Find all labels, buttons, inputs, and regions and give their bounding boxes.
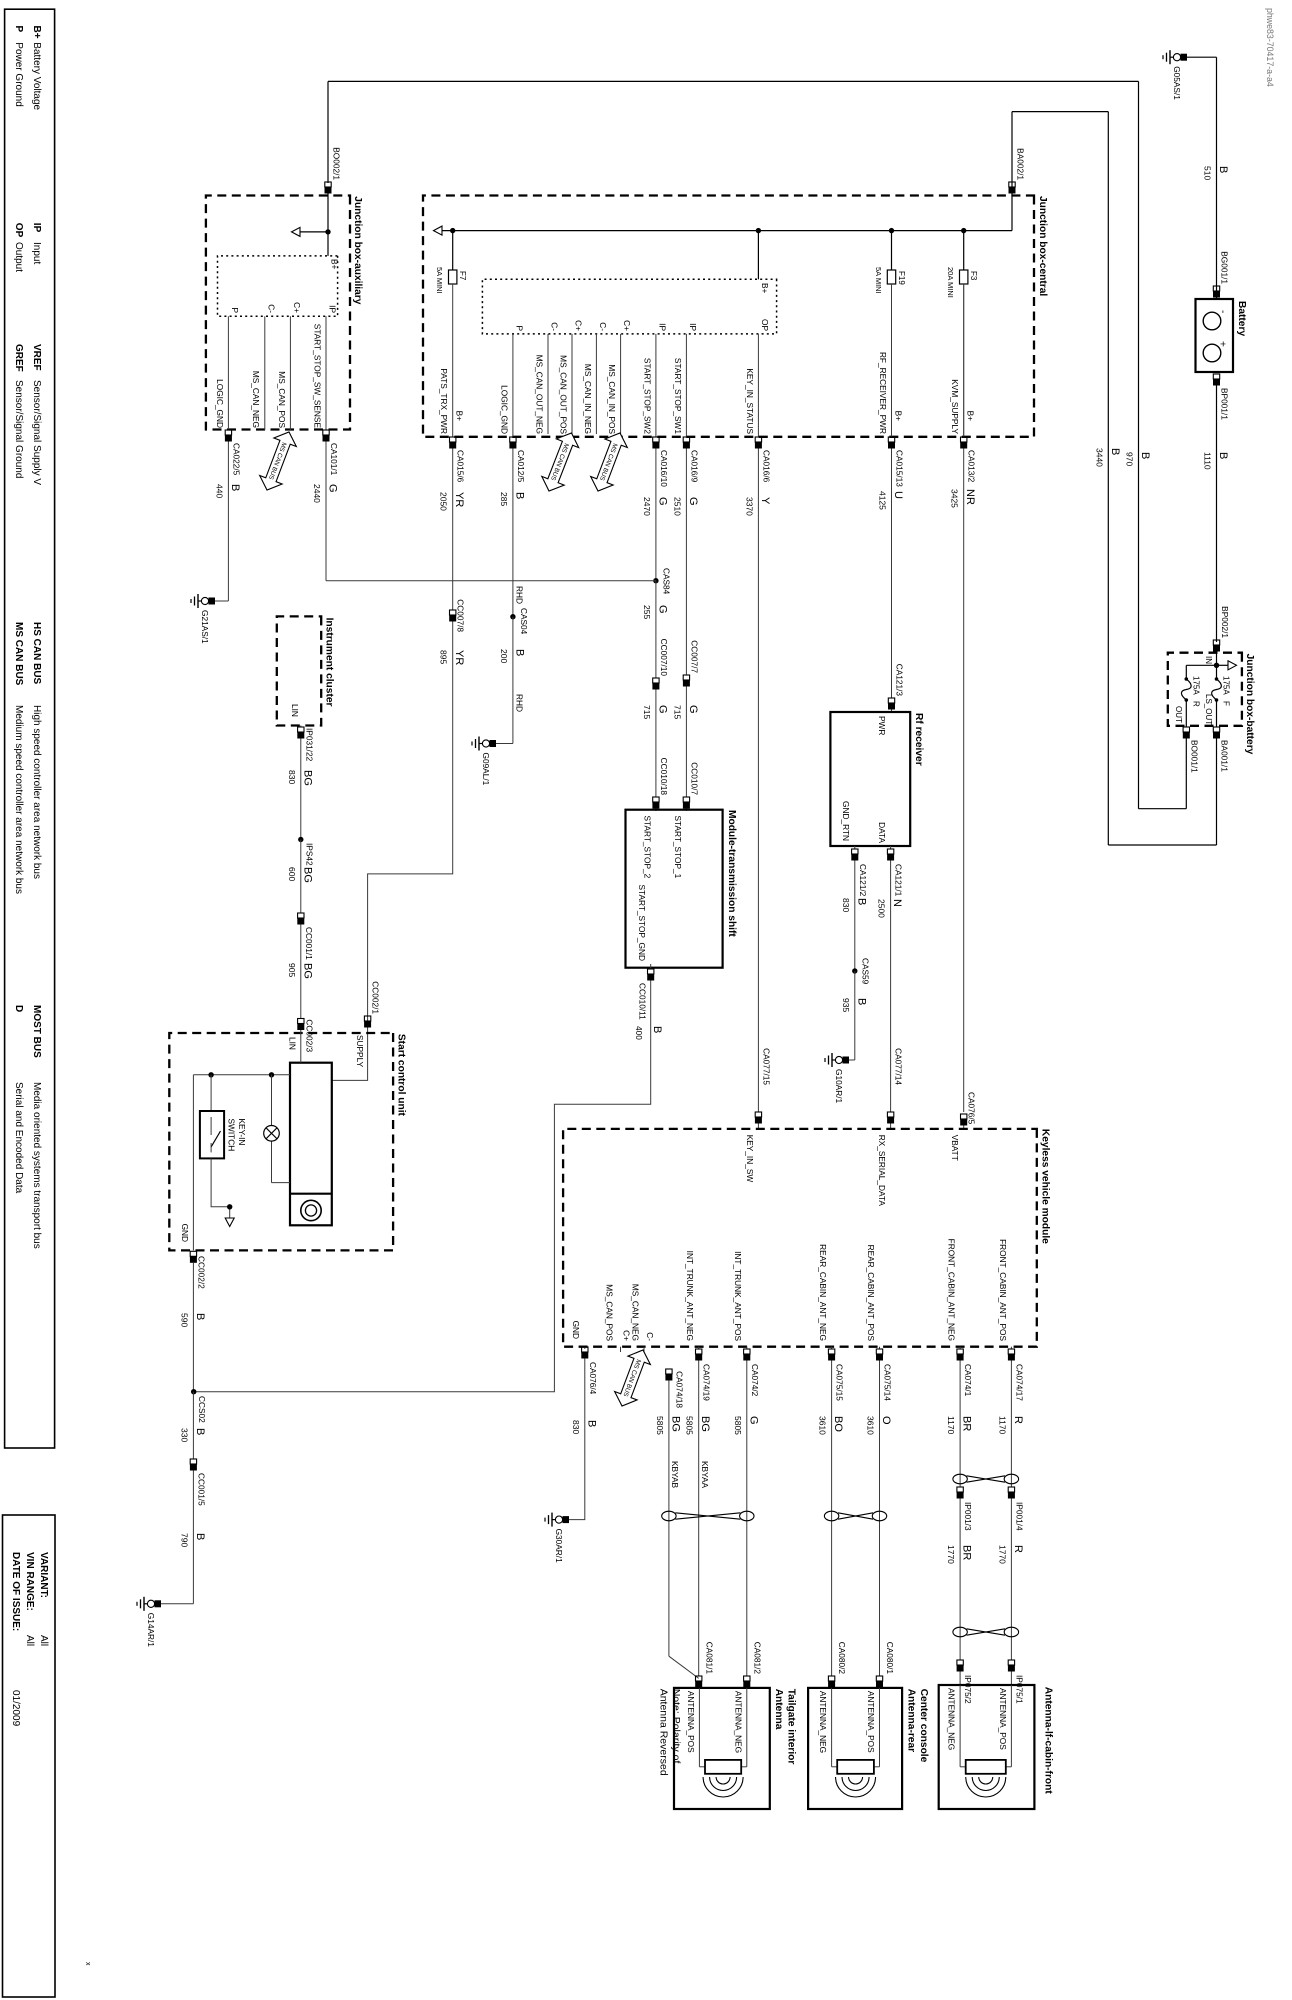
svg-text:CAS84: CAS84 bbox=[662, 568, 672, 595]
svg-text:CA121/1: CA121/1 bbox=[894, 864, 904, 897]
svg-text:G10AR/1: G10AR/1 bbox=[834, 1069, 844, 1104]
connector CC002/2 bbox=[190, 1251, 196, 1256]
svg-text:+: + bbox=[1217, 341, 1228, 347]
svg-text:ANTENNA_NEG: ANTENNA_NEG bbox=[947, 1688, 957, 1750]
svg-text:REAR_CABIN_ANT_POS: REAR_CABIN_ANT_POS bbox=[866, 1245, 876, 1342]
B+ pin bbox=[756, 228, 761, 233]
svg-text:BR: BR bbox=[961, 1545, 973, 1560]
GND wire bbox=[192, 1075, 194, 1251]
svg-text:20A MINI: 20A MINI bbox=[946, 267, 955, 298]
wire B 400 to CCS02 bbox=[194, 981, 651, 1392]
svg-text:Junction box-auxiliary: Junction box-auxiliary bbox=[352, 196, 363, 304]
MS CAN stubs and arrow keyless bbox=[643, 1347, 645, 1352]
svg-text:ANTENNA_NEG: ANTENNA_NEG bbox=[818, 1691, 828, 1753]
wire BR 1770 bbox=[959, 1499, 961, 1661]
ground G30AR/1 bbox=[563, 1516, 570, 1523]
svg-text:CC007/8: CC007/8 bbox=[456, 599, 466, 632]
svg-text:830: 830 bbox=[287, 770, 297, 784]
INT_TRUNK_ANT_NEG wire BG 5805 KBYAA bbox=[698, 1347, 700, 1349]
MS CAN BUS arrow aux bbox=[256, 428, 300, 495]
wire BA001/1 to B-3440 bus bbox=[1216, 739, 1218, 846]
svg-text:F7: F7 bbox=[458, 271, 467, 281]
svg-text:510: 510 bbox=[1203, 166, 1213, 180]
svg-text:DATA: DATA bbox=[877, 822, 887, 843]
wire B 590 bbox=[192, 1263, 194, 1392]
wire B 440 bbox=[227, 442, 229, 602]
svg-text:B+: B+ bbox=[966, 411, 976, 422]
svg-text:CC007/10: CC007/10 bbox=[659, 639, 669, 677]
svg-text:IP001/4: IP001/4 bbox=[1014, 1502, 1024, 1531]
svg-text:YR: YR bbox=[453, 492, 465, 507]
connector IP001/3 bbox=[957, 1487, 963, 1492]
svg-text:G: G bbox=[656, 605, 668, 614]
svg-text:CA075/14: CA075/14 bbox=[883, 1364, 893, 1401]
module-transmission shift bbox=[626, 810, 723, 968]
START_STOP_SW_SENSE IP pin bbox=[325, 316, 327, 430]
svg-text:C-: C- bbox=[598, 322, 608, 331]
connector CA101/1 bbox=[323, 430, 329, 435]
svg-text:5A MINI: 5A MINI bbox=[874, 267, 883, 294]
connector CC007/7 bbox=[683, 675, 689, 680]
ground G14AR/1 bbox=[161, 1603, 193, 1605]
svg-text:1770: 1770 bbox=[946, 1545, 956, 1564]
connector CC007/10 bbox=[653, 678, 659, 683]
svg-text:BO002/1: BO002/1 bbox=[332, 147, 342, 180]
svg-text:Battery: Battery bbox=[1236, 301, 1247, 336]
svg-text:GND: GND bbox=[571, 1321, 581, 1339]
target circles bbox=[301, 1200, 321, 1220]
svg-text:CA016/9: CA016/9 bbox=[689, 450, 699, 483]
svg-text:MS_CAN_NEG: MS_CAN_NEG bbox=[251, 371, 261, 428]
wire BG 830 bbox=[300, 739, 302, 840]
variant box bbox=[3, 1515, 56, 1997]
svg-text:CA076/5: CA076/5 bbox=[967, 1092, 977, 1125]
svg-text:Start control unit: Start control unit bbox=[396, 1034, 407, 1117]
twisted pair front 2 bbox=[1004, 1627, 1018, 1637]
svg-text:CA121/3: CA121/3 bbox=[895, 664, 905, 697]
svg-text:B: B bbox=[855, 998, 867, 1005]
junction box-central bbox=[423, 196, 1034, 437]
svg-text:CA015/13: CA015/13 bbox=[895, 450, 905, 487]
wire GND_RTN out bbox=[854, 846, 856, 849]
svg-text:REAR_CABIN_ANT_NEG: REAR_CABIN_ANT_NEG bbox=[818, 1244, 828, 1341]
wire into LIN pin bbox=[300, 1030, 302, 1063]
svg-text:400: 400 bbox=[634, 1026, 644, 1040]
connector CA121/1 bbox=[887, 849, 893, 854]
svg-text:905: 905 bbox=[287, 963, 297, 977]
svg-text:2440: 2440 bbox=[312, 484, 322, 503]
wire YR 895 to start control unit supply bbox=[332, 622, 453, 1081]
svg-text:SUPPLY: SUPPLY bbox=[355, 1035, 365, 1068]
svg-text:Sensor/Signal Supply V: Sensor/Signal Supply V bbox=[31, 380, 42, 485]
wire N 2500 bbox=[890, 861, 892, 1113]
svg-text:Media oriented systems transpo: Media oriented systems transport bus bbox=[31, 1082, 42, 1249]
FRONT_CABIN_ANT_NEG wire BR 1170 bbox=[959, 1347, 961, 1349]
fusible link 175A R OUT branch bbox=[1186, 664, 1216, 666]
svg-text:CA075/15: CA075/15 bbox=[835, 1364, 845, 1401]
svg-text:970: 970 bbox=[1125, 452, 1135, 466]
svg-text:G30AR/1: G30AR/1 bbox=[554, 1529, 564, 1564]
svg-text:CCS02: CCS02 bbox=[197, 1396, 207, 1423]
svg-text:285: 285 bbox=[499, 492, 509, 506]
svg-text:Power Ground: Power Ground bbox=[13, 42, 24, 106]
MS_CAN_OUT pins bbox=[620, 334, 622, 434]
svg-text:175A: 175A bbox=[1192, 676, 1201, 695]
svg-text:PWR: PWR bbox=[877, 716, 887, 735]
svg-text:VIN RANGE:: VIN RANGE: bbox=[24, 1552, 35, 1611]
wire R 1770 bbox=[1010, 1499, 1012, 1661]
svg-text:C-: C- bbox=[645, 1332, 655, 1341]
svg-text:YR: YR bbox=[453, 650, 465, 665]
start control unit bbox=[169, 1033, 393, 1250]
connector CA121/2 bbox=[852, 849, 858, 854]
svg-text:C+: C+ bbox=[574, 320, 584, 331]
svg-text:B: B bbox=[194, 1313, 206, 1320]
svg-text:P: P bbox=[515, 325, 525, 331]
svg-text:VBATT: VBATT bbox=[950, 1135, 960, 1161]
svg-text:RF_RECEIVER_PWR: RF_RECEIVER_PWR bbox=[878, 352, 888, 434]
junction node aux bbox=[325, 229, 330, 234]
connector IP075/2 bbox=[957, 1660, 963, 1665]
svg-text:BG: BG bbox=[699, 1416, 711, 1432]
connector IP001/4 bbox=[1008, 1487, 1014, 1492]
svg-text:CA081/1: CA081/1 bbox=[704, 1642, 714, 1675]
splice CAS84 bbox=[653, 578, 658, 583]
fuse F19 5A MINI / RF_RECEIVER_PWR bbox=[889, 228, 894, 233]
svg-text:B: B bbox=[1109, 448, 1121, 455]
svg-text:U: U bbox=[892, 491, 904, 499]
svg-text:START_STOP_SW1: START_STOP_SW1 bbox=[673, 358, 683, 434]
svg-text:Tailgate interior: Tailgate interior bbox=[786, 1689, 797, 1765]
antenna-lf-cabin-front bbox=[939, 1685, 1035, 1809]
svg-text:01/2009: 01/2009 bbox=[10, 1690, 21, 1727]
arrow bus continuation down aux bbox=[300, 231, 328, 233]
svg-text:1110: 1110 bbox=[1203, 452, 1213, 470]
svg-text:LIN: LIN bbox=[290, 704, 300, 717]
svg-text:CC007/7: CC007/7 bbox=[689, 640, 699, 673]
svg-text:MOST BUS: MOST BUS bbox=[31, 1005, 42, 1058]
svg-text:F19: F19 bbox=[897, 271, 906, 285]
svg-text:RHD: RHD bbox=[515, 586, 525, 604]
START_STOP_SW2 IP pin bbox=[655, 334, 657, 437]
svg-text:G05AS/1: G05AS/1 bbox=[1172, 66, 1182, 100]
svg-text:R: R bbox=[1012, 1545, 1024, 1553]
connector CC010/11 bbox=[648, 969, 654, 974]
svg-text:5A MINI: 5A MINI bbox=[435, 267, 444, 294]
CAS84 branch to start stop sense bbox=[326, 580, 656, 582]
svg-text:Antenna-rear: Antenna-rear bbox=[906, 1689, 917, 1752]
svg-text:BA001/1: BA001/1 bbox=[1220, 740, 1230, 772]
svg-text:DATE OF ISSUE:: DATE OF ISSUE: bbox=[10, 1552, 21, 1631]
inner unit box bbox=[290, 1063, 332, 1226]
svg-text:BP001/1: BP001/1 bbox=[1220, 388, 1230, 420]
wire B 3440 bbox=[1107, 112, 1109, 845]
svg-text:ANTENNA_POS: ANTENNA_POS bbox=[998, 1688, 1008, 1750]
svg-text:P: P bbox=[13, 26, 24, 33]
svg-text:phwe83-70417-a-a4: phwe83-70417-a-a4 bbox=[1265, 8, 1275, 87]
svg-text:Serial and Encoded Data: Serial and Encoded Data bbox=[13, 1082, 24, 1194]
connector BA002/1 bbox=[1009, 182, 1015, 187]
svg-text:CA016/10: CA016/10 bbox=[659, 450, 669, 487]
fuse F3 20A MINI / KVM_SUPPLY bbox=[961, 228, 966, 233]
svg-text:FRONT_CABIN_ANT_POS: FRONT_CABIN_ANT_POS bbox=[998, 1239, 1008, 1341]
svg-text:B: B bbox=[855, 898, 867, 905]
svg-text:3610: 3610 bbox=[866, 1416, 876, 1435]
REAR_CABIN_ANT_POS wire O 3610 bbox=[879, 1347, 881, 1349]
svg-text:CC010/18: CC010/18 bbox=[659, 758, 669, 796]
svg-text:3610: 3610 bbox=[818, 1416, 828, 1435]
svg-text:CA081/2: CA081/2 bbox=[752, 1642, 762, 1675]
svg-text:CC002/3: CC002/3 bbox=[304, 1019, 314, 1052]
wire YR 2050 bbox=[452, 449, 454, 611]
svg-text:OP: OP bbox=[760, 319, 770, 331]
svg-text:B: B bbox=[585, 1420, 597, 1427]
inner dotted box aux bbox=[218, 256, 338, 316]
connector CC002/3 bbox=[298, 1019, 304, 1024]
wire B 830 bbox=[854, 861, 856, 972]
svg-text:MS_CAN_POS: MS_CAN_POS bbox=[277, 371, 287, 428]
svg-text:B: B bbox=[513, 492, 525, 499]
tap wire BG 5805 KBYAB bbox=[666, 1369, 672, 1374]
svg-text:3370: 3370 bbox=[744, 497, 754, 516]
wire B 330 bbox=[192, 1392, 194, 1459]
svg-text:IPS42: IPS42 bbox=[305, 843, 315, 866]
svg-text:CC010/7: CC010/7 bbox=[689, 762, 699, 795]
connector CA015/6 bbox=[450, 437, 456, 442]
svg-text:All: All bbox=[24, 1635, 35, 1646]
wire into fuse F bbox=[1216, 652, 1218, 679]
svg-text:MS_CAN_IN_POS: MS_CAN_IN_POS bbox=[607, 364, 617, 434]
svg-text:2510: 2510 bbox=[672, 497, 682, 516]
svg-text:175A: 175A bbox=[1222, 676, 1231, 695]
svg-text:Y: Y bbox=[759, 497, 771, 505]
svg-text:NR: NR bbox=[964, 489, 976, 505]
svg-text:CA074/19: CA074/19 bbox=[702, 1364, 712, 1401]
svg-text:CA076/4: CA076/4 bbox=[588, 1362, 598, 1395]
svg-text:C-: C- bbox=[266, 304, 276, 313]
svg-text:PATS_TRX_PWR: PATS_TRX_PWR bbox=[439, 368, 449, 434]
svg-text:START_STOP_SW_SENSE: START_STOP_SW_SENSE bbox=[312, 324, 322, 429]
inner dotted box bbox=[482, 279, 776, 334]
MS CAN aux pins bbox=[289, 316, 291, 430]
svg-text:N: N bbox=[891, 899, 903, 907]
svg-text:CA074/18: CA074/18 bbox=[675, 1371, 685, 1408]
svg-text:MS CAN BUS: MS CAN BUS bbox=[13, 622, 24, 686]
junction box-auxiliary bbox=[206, 196, 350, 430]
wire B 790 bbox=[192, 1471, 194, 1604]
connector CA080/1 bbox=[876, 1676, 882, 1681]
svg-text:895: 895 bbox=[439, 650, 449, 664]
svg-text:Note: Polarity of: Note: Polarity of bbox=[670, 1689, 682, 1764]
connector BA001/1 bbox=[1213, 727, 1219, 732]
wire G 2470 bbox=[655, 449, 657, 581]
svg-text:G21AS/1: G21AS/1 bbox=[200, 610, 210, 644]
svg-text:IP001/3: IP001/3 bbox=[963, 1502, 973, 1531]
connector CA022/5 bbox=[225, 430, 231, 435]
svg-text:VARIANT:: VARIANT: bbox=[38, 1552, 49, 1598]
svg-text:Battery Voltage: Battery Voltage bbox=[31, 42, 42, 110]
svg-text:MS_CAN_OUT_NEG: MS_CAN_OUT_NEG bbox=[534, 355, 544, 434]
wire B 935 bbox=[854, 971, 856, 1060]
B+ bus bbox=[442, 230, 1012, 232]
svg-text:KEY_IN_SW: KEY_IN_SW bbox=[745, 1135, 755, 1183]
svg-text:830: 830 bbox=[571, 1420, 581, 1434]
svg-text:BO001/1: BO001/1 bbox=[1189, 740, 1199, 773]
svg-text:D: D bbox=[13, 1005, 24, 1012]
svg-text:830: 830 bbox=[841, 898, 851, 912]
svg-text:590: 590 bbox=[179, 1313, 189, 1327]
svg-text:B+: B+ bbox=[31, 26, 42, 39]
svg-text:B: B bbox=[1217, 452, 1229, 459]
wire B 200 RHD bbox=[512, 617, 514, 744]
tailgate interior antenna bbox=[674, 1688, 770, 1809]
svg-text:CA074/17: CA074/17 bbox=[1014, 1364, 1024, 1401]
connector CA081/1 bbox=[696, 1676, 702, 1681]
svg-text:O: O bbox=[880, 1416, 892, 1425]
svg-text:Input: Input bbox=[31, 242, 42, 264]
svg-text:C+: C+ bbox=[622, 320, 632, 331]
connector CA015/13 bbox=[888, 437, 894, 442]
svg-text:CC001/5: CC001/5 bbox=[196, 1473, 206, 1506]
svg-text:1170: 1170 bbox=[997, 1416, 1007, 1435]
svg-text:Sensor/Signal Ground: Sensor/Signal Ground bbox=[13, 380, 24, 478]
LOGIC_GND P pin aux bbox=[227, 316, 229, 430]
svg-text:CA016/6: CA016/6 bbox=[761, 450, 771, 483]
svg-text:IP075/1: IP075/1 bbox=[1014, 1675, 1024, 1704]
KEY_IN_STATUS OP pin bbox=[757, 334, 759, 437]
wire Y 3370 bbox=[757, 449, 759, 1113]
svg-text:5805: 5805 bbox=[685, 1416, 695, 1435]
svg-text:B: B bbox=[1217, 166, 1229, 173]
arrow bus continuation up bbox=[1217, 664, 1229, 666]
svg-text:Medium speed controller area n: Medium speed controller area network bus bbox=[13, 705, 24, 894]
svg-text:VREF: VREF bbox=[31, 344, 42, 371]
LOGIC_GND P pin bbox=[512, 334, 514, 437]
MS CAN BUS arrow out bbox=[538, 429, 583, 496]
svg-text:B+: B+ bbox=[760, 283, 770, 294]
svg-text:R: R bbox=[1012, 1416, 1024, 1424]
instrument cluster bbox=[277, 616, 321, 725]
svg-text:G09AL/1: G09AL/1 bbox=[481, 753, 491, 786]
svg-text:3425: 3425 bbox=[950, 489, 960, 508]
REAR_CABIN_ANT_NEG wire BO 3610 bbox=[831, 1347, 833, 1349]
svg-text:BA002/1: BA002/1 bbox=[1016, 148, 1026, 180]
svg-text:OUT: OUT bbox=[1174, 706, 1183, 723]
svg-text:x: x bbox=[84, 1962, 91, 1966]
connector CA016/6 bbox=[755, 437, 761, 442]
connector CC010/7 bbox=[683, 797, 689, 802]
svg-text:LIN: LIN bbox=[288, 1037, 298, 1050]
svg-text:Module-transmission shift: Module-transmission shift bbox=[726, 810, 737, 937]
svg-text:2050: 2050 bbox=[439, 492, 449, 511]
svg-text:IP: IP bbox=[328, 305, 338, 313]
svg-text:LS_OUT: LS_OUT bbox=[1204, 694, 1213, 725]
B+ feed into aux bbox=[327, 194, 329, 256]
splice CCS02 bbox=[191, 1389, 196, 1394]
svg-text:Instrument cluster: Instrument cluster bbox=[324, 618, 335, 707]
svg-text:Antenna: Antenna bbox=[773, 1689, 784, 1730]
svg-text:KEY_IN_STATUS: KEY_IN_STATUS bbox=[745, 368, 755, 434]
svg-text:CA074/1: CA074/1 bbox=[963, 1364, 973, 1397]
svg-text:HS CAN BUS: HS CAN BUS bbox=[31, 622, 42, 685]
junction node bbox=[1214, 663, 1219, 668]
svg-text:935: 935 bbox=[841, 998, 851, 1012]
svg-text:CA080/2: CA080/2 bbox=[837, 1642, 847, 1675]
connector CA012/5 bbox=[510, 437, 516, 442]
svg-text:G: G bbox=[327, 484, 339, 493]
svg-text:START_STOP_SW2: START_STOP_SW2 bbox=[642, 358, 652, 434]
INT_TRUNK_ANT_POS wire G 5805 bbox=[746, 1347, 748, 1349]
splice CAS59 bbox=[852, 968, 857, 973]
svg-text:715: 715 bbox=[642, 705, 652, 719]
svg-text:4125: 4125 bbox=[878, 491, 888, 510]
wire B 285 RHD bbox=[512, 449, 514, 617]
ground G21AS/1 bbox=[215, 600, 228, 602]
svg-text:START_STOP_1: START_STOP_1 bbox=[673, 816, 683, 879]
svg-text:CAS59: CAS59 bbox=[860, 958, 870, 985]
connector BP002/1 bbox=[1213, 640, 1219, 645]
connector BP001/1 bbox=[1213, 374, 1219, 379]
svg-text:CA012/5: CA012/5 bbox=[516, 450, 526, 483]
MS CAN BUS arrow in bbox=[587, 429, 631, 496]
svg-text:RX_SERIAL_DATA: RX_SERIAL_DATA bbox=[877, 1135, 887, 1207]
lamp bbox=[264, 1126, 280, 1142]
twisted pair int trunk bbox=[740, 1511, 754, 1521]
connector CC010/18 bbox=[653, 797, 659, 802]
svg-text:LOGIC_GND: LOGIC_GND bbox=[215, 379, 225, 428]
junction box-battery bbox=[1168, 653, 1242, 726]
svg-text:B: B bbox=[651, 1026, 663, 1033]
GND wire B 830 to G30AR/1 bbox=[584, 1347, 586, 1349]
svg-text:G: G bbox=[687, 705, 699, 714]
svg-text:KBYAA: KBYAA bbox=[700, 1461, 710, 1489]
ground G10AR/1 bbox=[849, 1059, 855, 1061]
svg-text:P: P bbox=[230, 307, 240, 313]
svg-text:All: All bbox=[38, 1635, 49, 1646]
wire B 1110 bbox=[1216, 385, 1218, 642]
svg-text:Rf receiver: Rf receiver bbox=[913, 713, 924, 766]
switch output to arrow bbox=[211, 1158, 230, 1218]
svg-text:CC002/2: CC002/2 bbox=[196, 1256, 206, 1289]
svg-text:790: 790 bbox=[179, 1533, 189, 1547]
svg-text:MS_CAN_IN_NEG: MS_CAN_IN_NEG bbox=[583, 364, 593, 434]
wire G 255 bbox=[655, 581, 657, 678]
svg-text:MS_CAN_NEG: MS_CAN_NEG bbox=[631, 1284, 641, 1341]
splice IPS42 bbox=[298, 837, 303, 842]
svg-text:START_STOP_2: START_STOP_2 bbox=[642, 816, 652, 879]
svg-text:High speed controller area net: High speed controller area network bus bbox=[31, 705, 42, 879]
svg-text:Antenna Reversed: Antenna Reversed bbox=[658, 1689, 670, 1776]
wire LIN out bbox=[300, 726, 302, 728]
svg-text:R: R bbox=[1192, 701, 1201, 707]
svg-text:Output: Output bbox=[13, 242, 24, 272]
svg-text:IP075/2: IP075/2 bbox=[963, 1675, 973, 1704]
svg-text:C-: C- bbox=[550, 322, 560, 331]
svg-text:ANTENNA_NEG: ANTENNA_NEG bbox=[733, 1691, 743, 1753]
svg-text:Keyless vehicle module: Keyless vehicle module bbox=[1040, 1129, 1051, 1244]
svg-text:B+: B+ bbox=[894, 411, 904, 422]
internal common wire bbox=[193, 1074, 290, 1076]
svg-text:G14AR/1: G14AR/1 bbox=[146, 1613, 156, 1648]
connector BG001/1 bbox=[1213, 286, 1219, 291]
svg-text:IP031/22: IP031/22 bbox=[304, 728, 314, 762]
svg-text:ANTENNA_POS: ANTENNA_POS bbox=[866, 1691, 876, 1753]
svg-text:255: 255 bbox=[642, 605, 652, 619]
svg-text:CA074/2: CA074/2 bbox=[750, 1364, 760, 1397]
svg-text:Junction box-battery: Junction box-battery bbox=[1244, 654, 1255, 755]
svg-text:GND: GND bbox=[180, 1224, 190, 1242]
wire U 4125 bbox=[891, 449, 893, 699]
